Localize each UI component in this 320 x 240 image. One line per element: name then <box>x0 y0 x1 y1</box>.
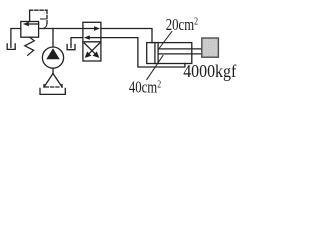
load block W (hatched) <box>202 38 219 57</box>
leader for 20cm2 label <box>158 32 172 50</box>
DV crossed position arrows <box>84 43 99 58</box>
leader for 40cm2 label <box>147 56 163 80</box>
directional valve divider <box>83 41 101 43</box>
pump P1 circle <box>42 47 63 68</box>
DV tank line <box>71 38 83 45</box>
directional valve DV body <box>83 22 101 61</box>
line A: valve to cylinder cap side <box>101 29 152 43</box>
tank T0 (reservoir under pump) <box>40 88 65 94</box>
pump suction line <box>52 68 54 73</box>
DV arrow B->T (left) <box>84 35 100 39</box>
cylinder piston <box>154 43 156 64</box>
cylinder C1 barrel <box>147 43 192 64</box>
svg-text:20cm2: 20cm2 <box>166 16 199 34</box>
svg-text:40cm2: 40cm2 <box>129 79 162 97</box>
relief valve drain line to tank <box>11 29 21 45</box>
pump P1 line up to main <box>52 29 54 48</box>
svg-text:4000kgf: 4000kgf <box>183 61 236 81</box>
tank T1 (relief drain) <box>7 44 15 50</box>
cylinder rod <box>158 48 202 50</box>
strainer S1 <box>44 74 62 88</box>
relief valve pilot line (dashed) <box>30 10 47 28</box>
line B: valve to cylinder rod side <box>101 38 185 67</box>
relief valve RV body <box>21 22 39 38</box>
tank T2 (valve return) <box>67 45 75 50</box>
relief valve arrow (flow path, points left) <box>23 22 39 26</box>
pump P1 triangle (up, filled) <box>46 48 59 59</box>
DV arrow P->A (right) <box>84 26 100 30</box>
relief valve spring <box>25 37 35 55</box>
main pressure line <box>39 28 83 30</box>
